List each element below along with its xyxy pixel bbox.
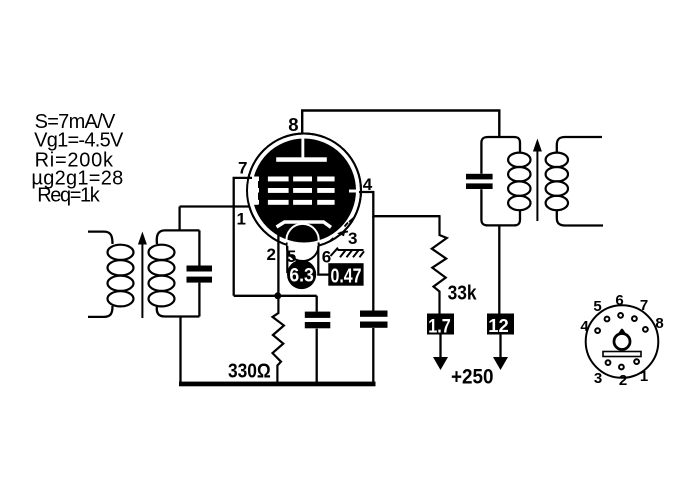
tube U1 envelope (247, 134, 361, 248)
wire pin8 to output transformer (302, 111, 499, 138)
tube U1 inner disc (252, 139, 356, 243)
cathode bypass capacitor C2 (305, 312, 331, 318)
output transformer T2 secondary winding (546, 153, 568, 211)
parameter text block (31, 111, 124, 207)
svg-text:0.47: 0.47 (331, 264, 362, 287)
svg-text:8: 8 (288, 114, 298, 135)
secondary top tap to grid (178, 207, 180, 231)
grid row 1 (g3) (253, 177, 335, 182)
cathode (277, 222, 332, 227)
tuning capacitor C1 (187, 266, 213, 272)
cathode bypass capacitor C2 leads (316, 296, 318, 382)
heater supply 6.3 (287, 260, 316, 289)
screen bypass capacitor C3 (360, 311, 388, 317)
svg-text:2: 2 (267, 245, 276, 264)
svg-text:+250: +250 (451, 365, 494, 388)
junction dot (274, 292, 281, 299)
tube grid tab notch (242, 180, 258, 205)
input transformer T1 secondary winding (149, 245, 175, 307)
voltage box 1.7 (427, 314, 454, 335)
svg-text:2: 2 (619, 372, 627, 389)
socket pin holes (595, 313, 648, 369)
cathode resistor 330 ohm (273, 296, 284, 382)
svg-text:5: 5 (593, 298, 601, 315)
secondary bottom tap to bus (179, 317, 181, 383)
tube socket base circle (586, 305, 659, 378)
output transformer feed wire (498, 225, 500, 313)
heater circle white arc over disc (287, 224, 319, 243)
socket center key (614, 334, 630, 350)
voltage box 12 (487, 314, 514, 335)
svg-text:7: 7 (238, 159, 247, 178)
anode plate lead (301, 138, 304, 159)
svg-text:330Ω: 330Ω (228, 361, 271, 383)
heater circle bottom segment (287, 229, 319, 261)
pin 3 arrow to envelope (340, 232, 348, 233)
output transformer primary capacitor C4 (466, 174, 493, 180)
svg-text:1: 1 (237, 210, 246, 229)
svg-text:6.3: 6.3 (289, 266, 314, 287)
output transformer tuning arrow (536, 150, 538, 221)
socket pin labels (580, 292, 663, 389)
svg-text:3: 3 (594, 370, 602, 387)
tuning capacitor C1 leads (198, 230, 200, 316)
input transformer secondary bracket (157, 230, 200, 316)
output transformer secondary leads (557, 137, 602, 153)
voltage box 0.47 (328, 263, 363, 286)
svg-text:1: 1 (640, 368, 648, 385)
pin 4 screen wire (359, 192, 441, 216)
input transformer T1 primary lead top (88, 232, 113, 244)
supply arrow left (439, 335, 441, 359)
pin 5 heater wire (287, 246, 291, 272)
svg-text:33k: 33k (448, 283, 478, 305)
svg-text:6: 6 (615, 292, 623, 309)
svg-text:4: 4 (580, 318, 589, 335)
pin 7 wire (234, 178, 252, 296)
svg-text:8: 8 (655, 315, 663, 332)
pin 6 heater wire (318, 246, 328, 275)
g3-cathode junction wire (234, 295, 317, 297)
envelope metallization dashes (331, 218, 355, 241)
grid row 2 (g2) (253, 188, 358, 193)
svg-text:Vg1=-4.5V: Vg1=-4.5V (34, 129, 124, 151)
pin 2 cathode wire (277, 235, 279, 296)
svg-text:3: 3 (348, 229, 357, 248)
chassis ground hatch (338, 249, 364, 251)
output transformer T2 primary winding (508, 153, 530, 211)
input transformer T1 primary lead bottom (88, 306, 113, 317)
screen resistor 33k (432, 216, 447, 313)
svg-text:7: 7 (640, 297, 648, 314)
grid wire from transformer (180, 205, 250, 207)
ground bus (179, 382, 376, 387)
anode plate bar (276, 157, 327, 162)
input transformer tuning arrow (141, 243, 143, 318)
svg-text:Req=1k: Req=1k (37, 185, 100, 207)
grid row 3 (g1) (253, 200, 335, 205)
svg-text:12: 12 (488, 315, 509, 336)
screen bypass capacitor C3 leads (372, 216, 374, 382)
socket key bar (603, 352, 641, 357)
output transformer T2 primary bracket (481, 137, 520, 174)
tube envelope redrawn (247, 134, 361, 248)
input transformer T1 primary winding (108, 245, 134, 307)
svg-text:1.7: 1.7 (428, 315, 451, 337)
supply arrow right (499, 335, 501, 359)
